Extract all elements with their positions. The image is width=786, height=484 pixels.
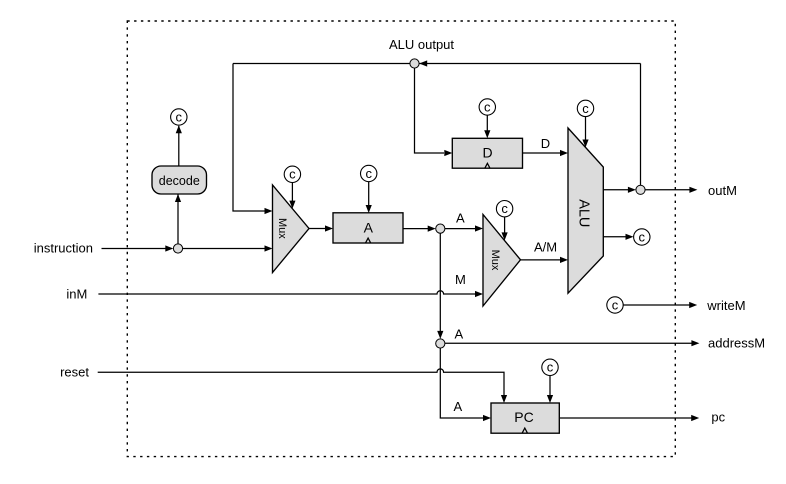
svg-text:c: c	[612, 297, 619, 312]
svg-text:outM: outM	[708, 183, 737, 198]
svg-text:PC: PC	[514, 409, 533, 425]
svg-text:decode: decode	[159, 174, 200, 188]
svg-text:inM: inM	[66, 286, 87, 301]
svg-text:c: c	[484, 99, 491, 114]
svg-text:D: D	[541, 136, 550, 151]
svg-text:M: M	[455, 272, 466, 287]
svg-text:instruction: instruction	[34, 240, 93, 255]
svg-text:Mux: Mux	[489, 250, 501, 271]
svg-text:pc: pc	[711, 409, 725, 424]
svg-text:addressM: addressM	[708, 335, 765, 350]
svg-text:Mux: Mux	[276, 218, 288, 239]
svg-text:c: c	[501, 201, 508, 216]
svg-text:ALU output: ALU output	[389, 37, 454, 52]
svg-text:c: c	[289, 167, 296, 182]
svg-text:ALU: ALU	[575, 199, 591, 227]
svg-text:writeM: writeM	[706, 298, 745, 313]
svg-text:c: c	[365, 166, 372, 181]
svg-text:A: A	[454, 399, 463, 414]
svg-text:A: A	[364, 219, 374, 235]
svg-text:D: D	[483, 145, 493, 161]
svg-text:c: c	[582, 101, 589, 116]
svg-text:A/M: A/M	[534, 239, 557, 254]
svg-text:A: A	[455, 327, 464, 342]
svg-text:c: c	[639, 229, 646, 244]
svg-text:A: A	[456, 210, 465, 225]
svg-text:c: c	[176, 109, 183, 124]
svg-text:c: c	[547, 360, 554, 375]
svg-text:reset: reset	[60, 365, 89, 380]
